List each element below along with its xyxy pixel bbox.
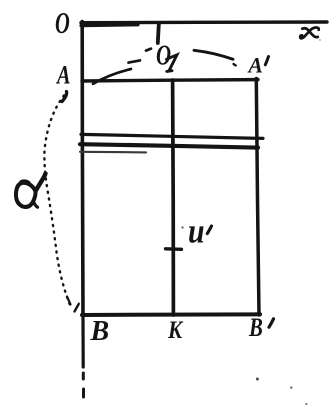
y-axis lower dash 1 [82,373,85,379]
y-axis (left vertical, upper part incl. rectangle left edge) [80,22,84,317]
svg-text:O: O [55,6,70,40]
svg-text:A: A [247,53,263,77]
arc bottom arrowhead stroke 2 [75,304,79,312]
dashed curve A to O1, dash 2 [129,60,141,62]
central vertical line O1-K [171,80,175,315]
rectangle bottom edge B-B' [82,312,260,317]
svg-text:B: B [90,316,110,347]
dashed curve O1 to A', long dash [194,50,233,59]
stray dot bottom right 1 [256,378,259,381]
y-axis lower continuation below B [81,316,84,367]
x-axis [81,20,327,24]
double line smudge (short third stroke) [80,151,146,154]
svg-text:A: A [55,61,70,90]
stray dot near u' [181,226,183,228]
alpha glyph (handwritten) [16,174,46,208]
apostrophe of u' [207,226,211,234]
tick below x-axis at O1 [158,24,159,43]
dotted arc alpha (A down to B) [44,96,70,306]
double line lower (thick) [80,144,258,147]
dashed curve A to O1, dash 1 [93,69,131,84]
tick at u' on central line [166,247,182,251]
svg-text:O: O [156,39,171,71]
svg-text:B: B [248,314,263,343]
arc top hook (comma below A) [62,92,67,102]
arc bottom arrowhead stroke 1 [67,297,71,305]
double line upper [81,134,263,138]
y-axis lower dash 2 [82,389,85,397]
x-axis doubled segment near corner [81,23,138,27]
label x (axis, script glyph) [300,27,319,38]
dashed curve A to O1, dash 3 [146,49,151,51]
dashed curve O1 to A', end speck [234,64,236,66]
svg-text:u: u [188,212,205,251]
stray dot bottom right 2 [290,386,292,388]
apostrophe of A' [265,57,268,65]
rectangle right edge A'-B' [256,79,259,316]
stray dot near x label [319,39,321,41]
apostrophe of B' [269,319,274,327]
O1 subscript 1 (handwritten 7-like) [167,55,178,72]
rectangle top edge A-A' [82,80,258,81]
svg-text:K: K [167,316,183,344]
stray dot bottom right 3 [305,403,307,405]
